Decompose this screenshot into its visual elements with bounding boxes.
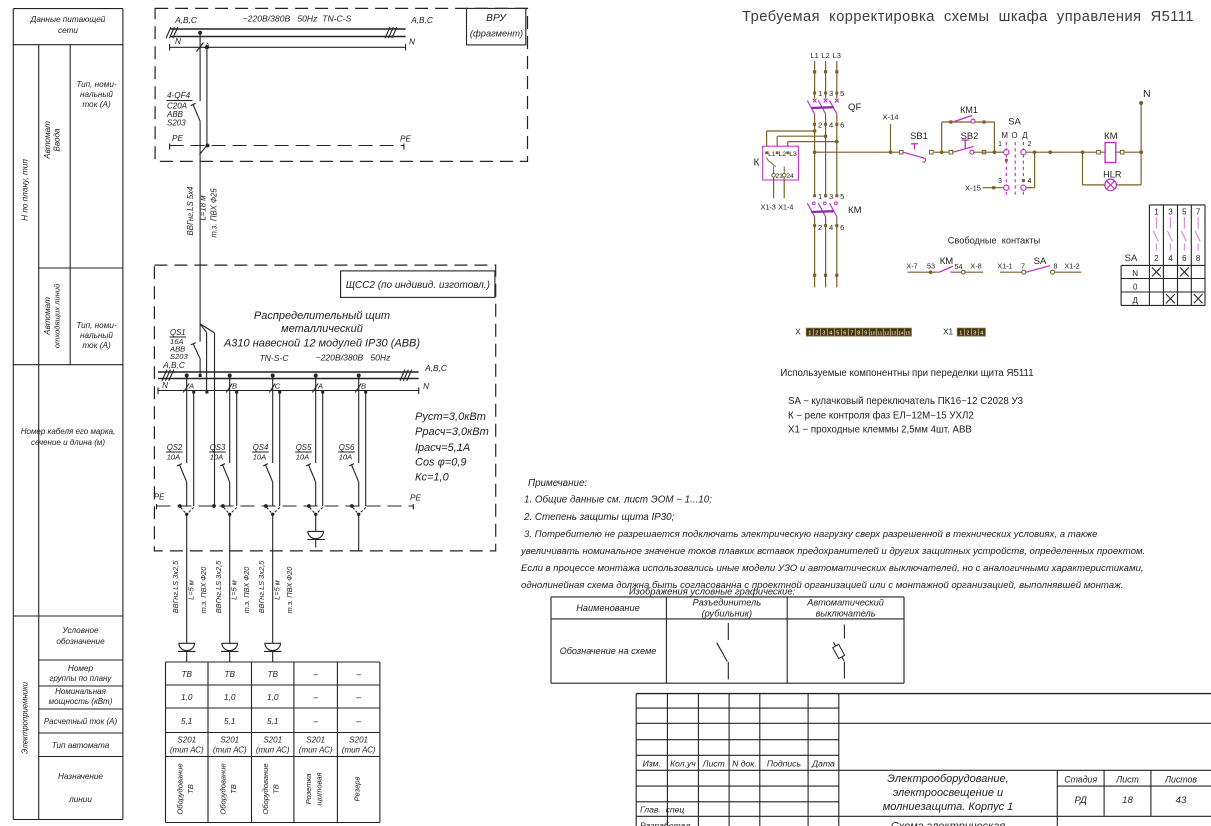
svg-text:(фрагмент): (фрагмент) bbox=[470, 29, 523, 39]
sheet title text bbox=[742, 9, 1194, 25]
svg-text:(тип АС): (тип АС) bbox=[213, 746, 247, 755]
svg-text:4: 4 bbox=[1028, 176, 1032, 185]
svg-text:Д: Д bbox=[1132, 296, 1138, 305]
svg-text:Изображения условные графическ: Изображения условные графические: bbox=[629, 586, 796, 597]
cam switch SA M-O-D bbox=[998, 116, 1032, 197]
node phase tap В circuit 2 bbox=[226, 374, 237, 464]
svg-text:1: 1 bbox=[998, 139, 1002, 148]
svg-text:Наименование: Наименование bbox=[576, 603, 639, 613]
svg-text:ВВГнг.LS 3х2,5: ВВГнг.LS 3х2,5 bbox=[257, 560, 266, 613]
svg-text:S201: S201 bbox=[220, 736, 239, 745]
svg-text:Схема электрическая: Схема электрическая bbox=[891, 821, 1006, 826]
svg-text:–: – bbox=[312, 693, 318, 702]
node phase tap С circuit 3 bbox=[269, 374, 281, 464]
svg-text:L=5 м: L=5 м bbox=[273, 580, 282, 600]
svg-text:Расчетный ток (А): Расчетный ток (А) bbox=[44, 717, 118, 726]
svg-text:QF: QF bbox=[848, 102, 861, 113]
svg-text:Лист: Лист bbox=[702, 759, 725, 769]
svg-text:SB2: SB2 bbox=[961, 130, 979, 141]
svg-text:Кс=1,0: Кс=1,0 bbox=[415, 472, 450, 484]
node phase tap А circuit 4 bbox=[312, 374, 323, 464]
phase control relay K box bbox=[754, 146, 799, 180]
wire taps to phase relay K bbox=[767, 129, 839, 151]
svg-text:2: 2 bbox=[1154, 254, 1159, 263]
svg-text:Оборудование: Оборудование bbox=[218, 763, 227, 814]
svg-text:Глав. спец: Глав. спец bbox=[640, 805, 684, 815]
svg-text:т.з. ПВХ Ф25: т.з. ПВХ Ф25 bbox=[210, 188, 219, 238]
svg-text:Автомат: Автомат bbox=[43, 297, 52, 336]
breaker QS4 10A bbox=[252, 443, 273, 506]
wire outgoing cable circuit 1 VVGng 3x2.5 bbox=[171, 514, 208, 643]
svg-text:N док.: N док. bbox=[732, 759, 757, 769]
svg-text:7: 7 bbox=[850, 331, 853, 337]
wire K outputs to X1-3 X1-4 bbox=[761, 177, 794, 211]
ShchSS2 N busbar bbox=[158, 381, 429, 394]
svg-text:3: 3 bbox=[1168, 208, 1173, 217]
svg-text:АВВ: АВВ bbox=[166, 110, 184, 119]
junction cable gland circuit 3 bbox=[264, 504, 280, 516]
svg-text:–: – bbox=[355, 670, 361, 679]
svg-text:13: 13 bbox=[891, 331, 897, 337]
svg-text:~220В/380В 50Hz TN-C-S: ~220В/380В 50Hz TN-C-S bbox=[243, 14, 352, 24]
svg-text:Используемые компонентны при п: Используемые компонентны при переделки щ… bbox=[780, 368, 1033, 379]
svg-text:1: 1 bbox=[959, 331, 962, 337]
svg-text:Распределительный щит: Распределительный щит bbox=[254, 310, 390, 322]
svg-text:54: 54 bbox=[955, 262, 963, 271]
junction cable gland circuit 2 bbox=[221, 504, 237, 516]
svg-text:Изм.: Изм. bbox=[643, 759, 661, 769]
wire circuit QS6 stub bbox=[358, 514, 360, 551]
left data table frame bbox=[13, 9, 123, 820]
breaker QS1 (16A ABB S203) with split to N,PE bbox=[169, 324, 215, 377]
svg-text:18: 18 bbox=[1122, 795, 1133, 806]
svg-text:L2: L2 bbox=[821, 51, 829, 60]
VRU label box bbox=[467, 8, 526, 45]
svg-text:однолинейная схема должна быть: однолинейная схема должна быть согласова… bbox=[521, 580, 1123, 591]
svg-text:выключатель: выключатель bbox=[816, 609, 876, 619]
svg-text:сети: сети bbox=[58, 26, 78, 35]
svg-text:Х: Х bbox=[795, 328, 801, 337]
SA switch position table bbox=[1121, 205, 1205, 306]
svg-text:L=5 м: L=5 м bbox=[187, 580, 196, 600]
ShchSS2 PE line bbox=[154, 493, 422, 510]
svg-text:Стадия: Стадия bbox=[1064, 774, 1097, 784]
svg-text:РЕ: РЕ bbox=[410, 494, 421, 503]
free contacts heading bbox=[948, 236, 1040, 246]
svg-text:Х1 − проходные клеммы 2,5мм 4ш: Х1 − проходные клеммы 2,5мм 4шт. АВВ bbox=[788, 425, 972, 436]
svg-text:Дата: Дата bbox=[811, 759, 835, 769]
svg-text:(тип АС): (тип АС) bbox=[299, 746, 333, 755]
svg-text:3: 3 bbox=[822, 331, 825, 337]
svg-text:Резерв: Резерв bbox=[353, 776, 362, 801]
svg-text:Iрасч=5,1А: Iрасч=5,1А bbox=[415, 442, 470, 454]
symbol disconnector bbox=[717, 623, 729, 679]
svg-text:обозначение: обозначение bbox=[56, 637, 105, 646]
svg-text:А,В,С: А,В,С bbox=[174, 15, 198, 25]
svg-text:4: 4 bbox=[1168, 254, 1173, 263]
junction cable gland circuit 1 bbox=[178, 504, 194, 516]
svg-text:Х1-2: Х1-2 bbox=[1064, 261, 1079, 270]
svg-text:S201: S201 bbox=[177, 736, 196, 745]
svg-text:21: 21 bbox=[775, 173, 783, 180]
svg-text:–: – bbox=[312, 670, 318, 679]
node phase tap А circuit 1 bbox=[183, 374, 194, 464]
svg-text:2: 2 bbox=[815, 331, 818, 337]
breaker QS2 10A bbox=[166, 443, 187, 506]
svg-text:Х-15: Х-15 bbox=[965, 184, 981, 193]
symbol circuit breaker bbox=[833, 625, 845, 679]
svg-text:QS6: QS6 bbox=[339, 443, 355, 452]
svg-text:т.з. ПВХ Ф20: т.з. ПВХ Ф20 bbox=[242, 566, 251, 614]
svg-text:6: 6 bbox=[840, 223, 844, 232]
ShchSS2 label box bbox=[341, 271, 495, 298]
svg-text:QS3: QS3 bbox=[210, 443, 226, 452]
contact KM free 53-54 bbox=[906, 256, 983, 274]
breaker QF4 (4-QF4 C20A ABB S203) bbox=[166, 91, 200, 146]
svg-text:ТВ: ТВ bbox=[272, 784, 281, 794]
svg-text:А,В,С: А,В,С bbox=[410, 15, 434, 25]
svg-text:электроосвещение и: электроосвещение и bbox=[893, 787, 1003, 799]
svg-text:12: 12 bbox=[884, 331, 890, 337]
svg-text:1: 1 bbox=[1154, 208, 1159, 217]
svg-text:1: 1 bbox=[818, 192, 822, 201]
svg-text:(рубильник): (рубильник) bbox=[702, 609, 753, 619]
node L1 bbox=[810, 51, 818, 60]
svg-text:отходящих линий: отходящих линий bbox=[53, 283, 62, 348]
graphic symbols table bbox=[551, 586, 904, 684]
svg-text:N: N bbox=[409, 38, 415, 47]
svg-text:1,0: 1,0 bbox=[181, 693, 193, 702]
svg-text:L=18 м: L=18 м bbox=[199, 195, 208, 221]
svg-text:N: N bbox=[175, 37, 181, 46]
svg-text:Тип, номи-: Тип, номи- bbox=[76, 321, 117, 330]
svg-text:щитовая: щитовая bbox=[315, 772, 324, 805]
svg-text:Назначение: Назначение bbox=[58, 772, 103, 781]
socket symbol on circuit QS5 bbox=[307, 514, 324, 547]
svg-text:3: 3 bbox=[829, 192, 833, 201]
wire incoming PE conductor bbox=[212, 333, 216, 508]
svg-text:А310 навесной 12 модулей IP30: А310 навесной 12 модулей IP30 (АВВ) bbox=[223, 338, 420, 350]
svg-text:L1: L1 bbox=[810, 51, 818, 60]
svg-text:4: 4 bbox=[829, 331, 832, 337]
wire N tap from VRU N bar bbox=[205, 45, 209, 145]
svg-text:8: 8 bbox=[857, 331, 860, 337]
svg-text:ток (А): ток (А) bbox=[82, 341, 111, 350]
svg-text:2: 2 bbox=[966, 331, 969, 337]
contactor coil KM bbox=[1083, 131, 1142, 163]
svg-text:С20А: С20А bbox=[167, 101, 187, 110]
svg-text:53: 53 bbox=[927, 261, 935, 270]
svg-text:РД: РД bbox=[1074, 795, 1087, 806]
svg-text:SA: SA bbox=[1125, 253, 1138, 264]
svg-text:Тип автомата: Тип автомата bbox=[52, 741, 110, 750]
svg-text:нальный: нальный bbox=[80, 331, 113, 340]
VRU N busbar bbox=[170, 37, 415, 51]
svg-text:SB1: SB1 bbox=[910, 130, 928, 141]
wire incoming N conductor bbox=[205, 332, 208, 393]
ShchSS2 dashed enclosure bbox=[154, 265, 495, 551]
svg-text:С: С bbox=[275, 382, 281, 391]
svg-text:РЕ: РЕ bbox=[172, 134, 183, 143]
svg-text:Автомат: Автомат bbox=[43, 121, 52, 160]
svg-text:Оборудование: Оборудование bbox=[261, 763, 270, 814]
svg-text:Тип, номи-: Тип, номи- bbox=[76, 80, 117, 89]
svg-text:3: 3 bbox=[998, 176, 1002, 185]
svg-text:5,1: 5,1 bbox=[267, 717, 278, 726]
svg-text:SA: SA bbox=[1034, 256, 1047, 267]
svg-text:КМ1: КМ1 bbox=[960, 105, 978, 115]
node L2 bbox=[821, 51, 829, 60]
svg-text:L=5 м: L=5 м bbox=[230, 580, 239, 600]
svg-text:8: 8 bbox=[1054, 261, 1058, 270]
svg-text:ТВ: ТВ bbox=[267, 670, 278, 679]
svg-text:Руст=3,0кВт: Руст=3,0кВт bbox=[415, 411, 486, 423]
svg-text:6: 6 bbox=[843, 331, 846, 337]
svg-text:10А: 10А bbox=[296, 453, 310, 462]
circuit data table bbox=[166, 662, 380, 823]
svg-text:РЕ: РЕ bbox=[154, 493, 165, 502]
svg-text:(тип АС): (тип АС) bbox=[170, 746, 204, 755]
svg-text:Требуемая корректировка схем: Требуемая корректировка схемы шкафа упра… bbox=[742, 9, 1194, 25]
wire control line main bbox=[813, 150, 901, 154]
svg-text:(тип АС): (тип АС) bbox=[342, 746, 376, 755]
svg-text:Автоматический: Автоматический bbox=[806, 598, 884, 608]
svg-text:Свободные контакты: Свободные контакты bbox=[948, 236, 1040, 246]
svg-text:6: 6 bbox=[1182, 254, 1187, 263]
junction PE/N merge bbox=[200, 144, 210, 155]
terminal X-14 stub bbox=[882, 113, 898, 155]
svg-text:Х-8: Х-8 bbox=[970, 261, 981, 270]
title block stamp bbox=[636, 694, 1211, 826]
svg-text:К − реле контроля фаз ЕЛ−12М−1: К − реле контроля фаз ЕЛ−12М−15 УХЛ2 bbox=[788, 411, 974, 422]
breaker QS3 10A bbox=[209, 443, 230, 506]
svg-text:~220В/380В 50Hz: ~220В/380В 50Hz bbox=[316, 353, 391, 363]
svg-text:А: А bbox=[317, 382, 323, 391]
svg-text:5,1: 5,1 bbox=[224, 717, 235, 726]
svg-text:Ррасч=3,0кВт: Ррасч=3,0кВт bbox=[415, 426, 489, 438]
svg-text:Х1-4: Х1-4 bbox=[778, 203, 793, 212]
svg-text:т.з. ПВХ Ф20: т.з. ПВХ Ф20 bbox=[199, 566, 208, 614]
svg-text:линии: линии bbox=[68, 795, 92, 804]
terminal strip X1 1-4 bbox=[943, 328, 985, 337]
svg-text:S203: S203 bbox=[167, 119, 186, 128]
svg-text:Оборудование: Оборудование bbox=[175, 763, 184, 814]
svg-text:4: 4 bbox=[829, 223, 833, 232]
lamp symbol circuit 2 bbox=[221, 643, 238, 662]
svg-text:5,1: 5,1 bbox=[181, 717, 192, 726]
svg-text:S201: S201 bbox=[263, 736, 282, 745]
svg-text:2: 2 bbox=[818, 223, 822, 232]
svg-text:Розетка: Розетка bbox=[304, 774, 313, 805]
component list text bbox=[780, 368, 1033, 436]
svg-text:т.з. ПВХ Ф20: т.з. ПВХ Ф20 bbox=[285, 566, 294, 614]
svg-text:РЕ: РЕ bbox=[400, 135, 411, 144]
svg-text:4-QF4: 4-QF4 bbox=[167, 91, 191, 100]
svg-text:QS4: QS4 bbox=[253, 443, 269, 452]
svg-text:Примечание:: Примечание: bbox=[528, 478, 587, 489]
svg-text:2: 2 bbox=[818, 120, 822, 129]
svg-text:Ввода: Ввода bbox=[53, 128, 62, 152]
breaker QS5 10A bbox=[295, 443, 316, 506]
svg-text:ТВ: ТВ bbox=[182, 670, 193, 679]
svg-text:1: 1 bbox=[818, 89, 822, 98]
junction cable gland circuit 5 bbox=[350, 504, 366, 516]
svg-text:TN-S-C: TN-S-C bbox=[259, 353, 289, 363]
ShchSS2 busbar A,B,C bbox=[158, 360, 448, 381]
svg-text:Лист: Лист bbox=[1115, 774, 1139, 784]
svg-text:ТВ: ТВ bbox=[186, 784, 195, 794]
wire N conductor circuit 3 bbox=[278, 391, 281, 507]
svg-text:N: N bbox=[1143, 88, 1151, 100]
svg-text:Cos φ=0,9: Cos φ=0,9 bbox=[415, 457, 467, 469]
svg-text:11: 11 bbox=[877, 331, 882, 337]
svg-text:КМ: КМ bbox=[1104, 131, 1118, 142]
svg-text:Если в процессе монтажа исполь: Если в процессе монтажа использовались и… bbox=[521, 563, 1144, 574]
svg-text:В: В bbox=[232, 382, 237, 391]
svg-text:L1: L1 bbox=[768, 151, 776, 158]
svg-text:ЩСС2 (по индивид. изготовл.): ЩСС2 (по индивид. изготовл.) bbox=[346, 280, 490, 291]
svg-text:В: В bbox=[361, 382, 366, 391]
svg-text:SA − кулачковый переключатель: SA − кулачковый переключатель ПК16−12 С2… bbox=[788, 396, 1023, 407]
svg-text:ТВ: ТВ bbox=[225, 670, 236, 679]
wire KM1 bypass branch bbox=[940, 122, 996, 154]
svg-text:N: N bbox=[423, 382, 429, 391]
svg-text:КМ: КМ bbox=[848, 205, 862, 216]
svg-text:Х1-1: Х1-1 bbox=[997, 261, 1012, 270]
svg-text:М: М bbox=[1002, 131, 1009, 140]
svg-text:0: 0 bbox=[1133, 282, 1138, 291]
contactor KM 3-pole power bbox=[807, 192, 861, 288]
lamp symbol circuit 3 bbox=[264, 643, 281, 662]
svg-text:10А: 10А bbox=[167, 453, 181, 462]
svg-text:1. Общие данные см. лист ЭОМ −: 1. Общие данные см. лист ЭОМ − 1...10; bbox=[524, 495, 712, 506]
svg-text:–: – bbox=[355, 693, 361, 702]
svg-text:ТВ: ТВ bbox=[229, 784, 238, 794]
svg-text:2: 2 bbox=[1028, 139, 1032, 148]
VRU PE line bbox=[170, 134, 412, 150]
svg-text:Электрооборудование,: Электрооборудование, bbox=[887, 773, 1008, 785]
svg-text:–: – bbox=[312, 717, 318, 726]
svg-text:4: 4 bbox=[829, 120, 833, 129]
svg-text:Разработал: Разработал bbox=[640, 821, 690, 826]
svg-text:7: 7 bbox=[1196, 208, 1201, 217]
svg-text:мощность (кВт): мощность (кВт) bbox=[49, 697, 113, 706]
svg-text:Обозначение на схеме: Обозначение на схеме bbox=[560, 646, 657, 656]
svg-text:Условное: Условное bbox=[61, 626, 99, 635]
svg-text:нальный: нальный bbox=[80, 90, 113, 99]
svg-text:QS1: QS1 bbox=[170, 328, 186, 337]
wire feeder VVGng 5x4 to ShchSS2 bbox=[186, 146, 219, 324]
svg-text:ВВГнг.LS 3х2,5: ВВГнг.LS 3х2,5 bbox=[171, 560, 180, 613]
svg-text:8: 8 bbox=[1196, 254, 1201, 263]
svg-text:А: А bbox=[188, 382, 194, 391]
svg-text:Данные питающей: Данные питающей bbox=[30, 15, 106, 24]
wire N conductor circuit 5 bbox=[364, 391, 367, 507]
pushbutton SB2 start NO bbox=[942, 130, 1004, 154]
svg-text:5: 5 bbox=[836, 331, 839, 337]
svg-text:А,В,С: А,В,С bbox=[162, 360, 186, 370]
wire outgoing cable circuit 2 VVGng 3x2.5 bbox=[214, 514, 251, 643]
panel description text bbox=[223, 310, 420, 363]
svg-text:10А: 10А bbox=[339, 453, 353, 462]
svg-text:1,0: 1,0 bbox=[224, 693, 236, 702]
svg-text:О: О bbox=[1011, 131, 1017, 140]
svg-text:Номер: Номер bbox=[68, 664, 94, 673]
svg-text:молниезащита. Корпус 1: молниезащита. Корпус 1 bbox=[883, 801, 1014, 813]
svg-text:1,0: 1,0 bbox=[267, 693, 279, 702]
svg-text:N: N bbox=[162, 381, 168, 390]
svg-text:5: 5 bbox=[1182, 208, 1187, 217]
svg-text:Кол.уч: Кол.уч bbox=[670, 759, 696, 769]
svg-text:сечение и длина (м): сечение и длина (м) bbox=[31, 438, 105, 447]
svg-text:10А: 10А bbox=[253, 453, 267, 462]
VRU busbar A,B,C bbox=[166, 14, 434, 39]
signal lamp HLR bbox=[1081, 150, 1141, 190]
svg-text:14: 14 bbox=[898, 331, 904, 337]
svg-text:QS5: QS5 bbox=[296, 443, 312, 452]
node phase tap В circuit 5 bbox=[355, 374, 366, 464]
svg-text:Н по плану, тип: Н по плану, тип bbox=[21, 159, 30, 221]
wire phase tap from VRU bus bbox=[197, 31, 210, 101]
svg-text:ВРУ: ВРУ bbox=[486, 13, 507, 24]
svg-text:S201: S201 bbox=[349, 736, 368, 745]
svg-text:ВВГнг.LS 5х4: ВВГнг.LS 5х4 bbox=[186, 186, 195, 236]
wire N conductor circuit 1 bbox=[192, 391, 195, 507]
svg-text:10А: 10А bbox=[210, 453, 224, 462]
svg-text:увеличивать номинальное значен: увеличивать номинальное значение токов п… bbox=[520, 546, 1145, 557]
svg-text:Х1-3: Х1-3 bbox=[761, 203, 776, 212]
svg-text:9: 9 bbox=[864, 331, 867, 337]
svg-text:5: 5 bbox=[840, 192, 844, 201]
svg-text:S201: S201 bbox=[306, 736, 325, 745]
svg-text:L3: L3 bbox=[789, 151, 797, 158]
svg-text:КМ: КМ bbox=[940, 256, 954, 267]
svg-text:4: 4 bbox=[980, 331, 983, 337]
wire outgoing cable circuit 3 VVGng 3x2.5 bbox=[257, 514, 294, 643]
svg-text:Номер кабеля его марка,: Номер кабеля его марка, bbox=[21, 427, 116, 436]
contact KM1 NO auxiliary bbox=[949, 105, 985, 124]
svg-text:Номинальная: Номинальная bbox=[55, 687, 106, 696]
svg-text:группы по плану: группы по плану bbox=[50, 674, 113, 683]
svg-text:L3: L3 bbox=[833, 51, 841, 60]
svg-text:HLR: HLR bbox=[1103, 170, 1122, 180]
svg-text:Электроприемники: Электроприемники bbox=[21, 681, 30, 754]
svg-text:15: 15 bbox=[905, 331, 911, 337]
svg-text:3. Потребителю не разрешается: 3. Потребителю не разрешается подключать… bbox=[524, 529, 1097, 540]
wire N conductor circuit 4 bbox=[321, 391, 324, 507]
svg-text:ток (А): ток (А) bbox=[82, 100, 111, 109]
breaker QS6 10A bbox=[338, 443, 359, 506]
contact SA free 7-8 bbox=[997, 256, 1081, 274]
node L3 bbox=[833, 51, 841, 60]
notes text block bbox=[520, 478, 1145, 591]
svg-text:43: 43 bbox=[1176, 795, 1187, 806]
svg-text:Разъединитель: Разъединитель bbox=[693, 598, 762, 608]
svg-text:SA: SA bbox=[1008, 116, 1021, 127]
svg-text:Х1: Х1 bbox=[943, 328, 953, 337]
svg-text:7: 7 bbox=[1021, 261, 1025, 270]
svg-text:Листов: Листов bbox=[1164, 774, 1197, 784]
svg-text:1: 1 bbox=[808, 331, 811, 337]
svg-text:–: – bbox=[355, 717, 361, 726]
svg-text:ВВГнг.LS 3х2,5: ВВГнг.LS 3х2,5 bbox=[214, 560, 223, 613]
wire L1 L2 L3 phase lines bbox=[813, 61, 838, 93]
VRU dashed enclosure bbox=[155, 8, 527, 161]
svg-text:5: 5 bbox=[840, 89, 844, 98]
svg-text:А,В,С: А,В,С bbox=[424, 363, 448, 373]
svg-text:Х-7: Х-7 bbox=[906, 261, 917, 270]
terminal strip X 1-15 bbox=[795, 328, 911, 337]
